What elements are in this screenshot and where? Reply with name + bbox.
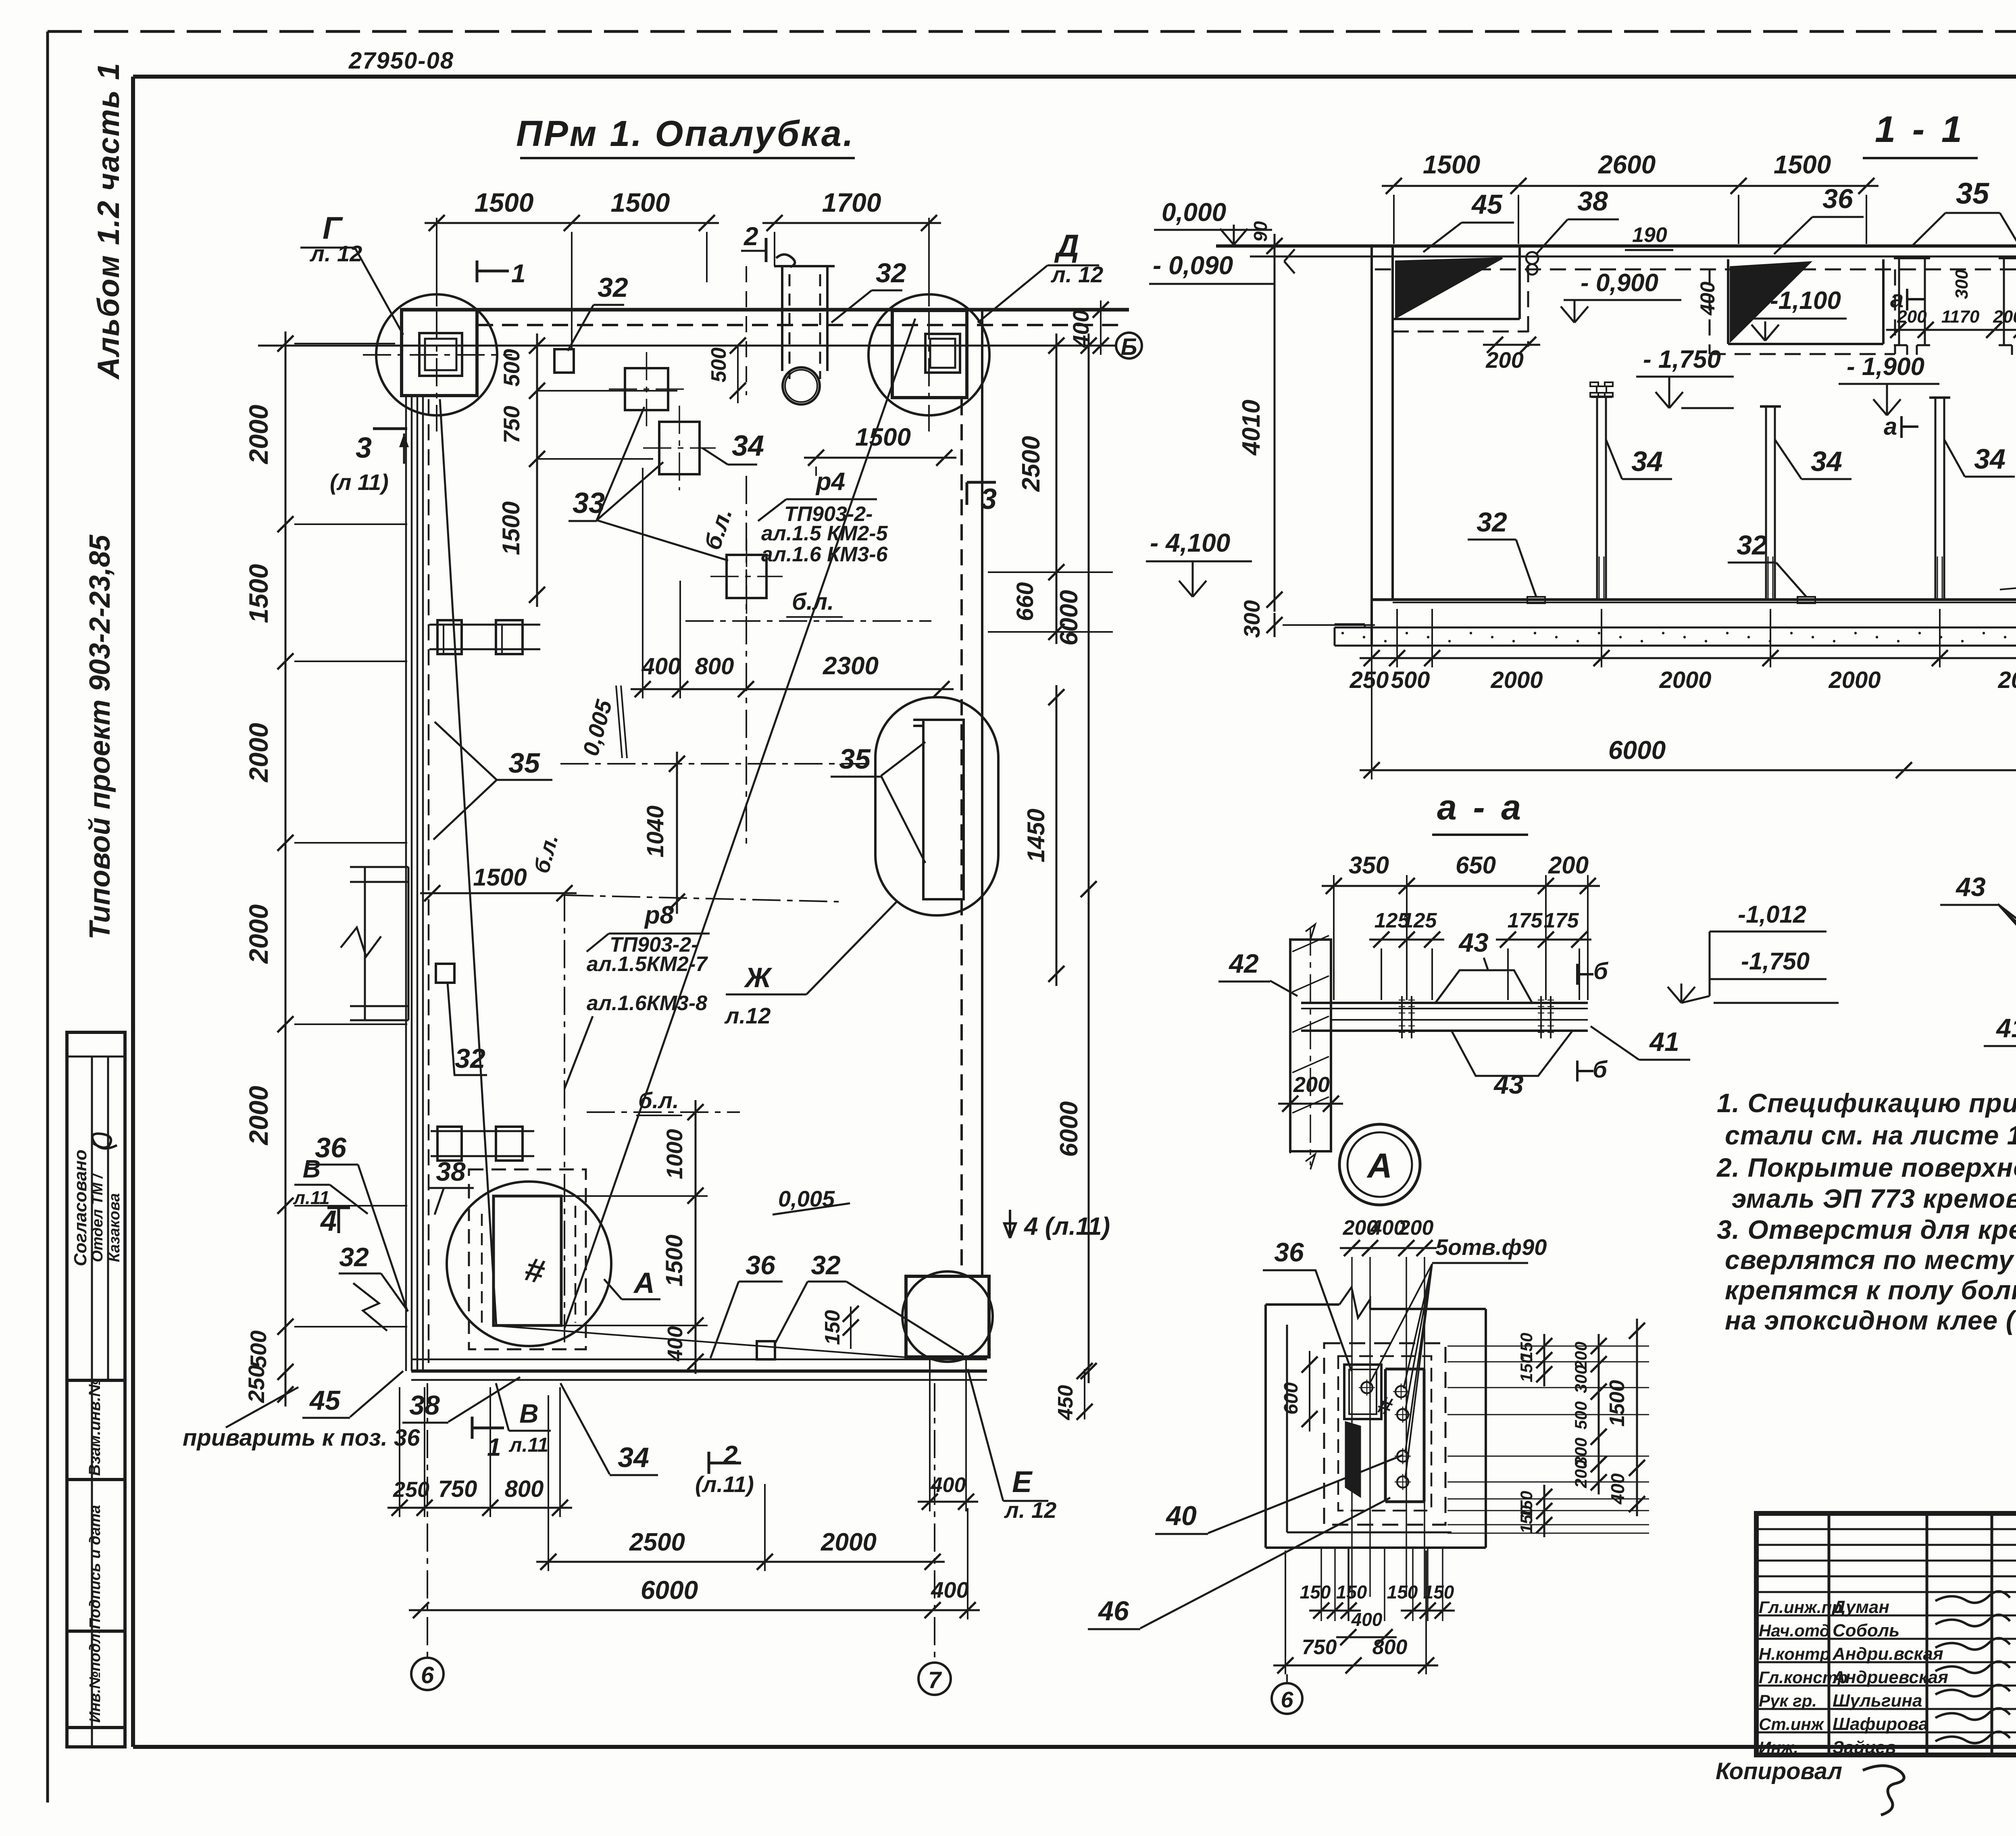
svg-text:Подпись и дата: Подпись и дата — [87, 1505, 104, 1629]
svg-text:2000: 2000 — [244, 723, 273, 783]
svg-text:1500: 1500 — [855, 423, 911, 451]
svg-text:45: 45 — [1471, 189, 1503, 220]
svg-text:б: б — [1593, 958, 1609, 984]
svg-text:а: а — [1884, 413, 1897, 440]
svg-text:38: 38 — [436, 1157, 466, 1186]
svg-text:6: 6 — [421, 1662, 434, 1688]
svg-text:1500: 1500 — [661, 1234, 687, 1286]
svg-text:- 0,090: - 0,090 — [1153, 251, 1233, 280]
svg-text:36: 36 — [1822, 183, 1854, 214]
svg-text:500: 500 — [499, 349, 524, 386]
svg-text:43: 43 — [1493, 1069, 1523, 1099]
svg-text:6000: 6000 — [641, 1576, 698, 1605]
svg-text:3: 3 — [356, 432, 372, 464]
svg-text:400: 400 — [1351, 1609, 1383, 1630]
svg-text:Согласовано: Согласовано — [71, 1150, 90, 1266]
svg-text:38: 38 — [1577, 186, 1608, 217]
svg-text:500: 500 — [1391, 667, 1430, 693]
svg-text:32: 32 — [1737, 530, 1767, 561]
svg-text:Б: Б — [1120, 334, 1137, 360]
svg-text:2500: 2500 — [1017, 436, 1045, 492]
svg-text:1 - 1: 1 - 1 — [1875, 109, 1965, 150]
svg-text:200: 200 — [1548, 852, 1589, 879]
svg-text:Андри.вская: Андри.вская — [1832, 1644, 1943, 1664]
svg-text:Инж.: Инж. — [1759, 1738, 1798, 1757]
svg-text:Нач.отд: Нач.отд — [1759, 1621, 1830, 1640]
svg-text:400: 400 — [1607, 1473, 1628, 1505]
svg-text:-1,750: -1,750 — [1741, 948, 1810, 975]
svg-text:Шульгина: Шульгина — [1833, 1691, 1922, 1711]
svg-text:400: 400 — [1068, 310, 1093, 348]
svg-text:0,000: 0,000 — [1162, 198, 1226, 227]
svg-text:200: 200 — [1993, 307, 2016, 327]
svg-text:150: 150 — [1336, 1582, 1367, 1603]
svg-text:2000: 2000 — [1490, 667, 1543, 693]
svg-text:приварить к поз. 36: приварить к поз. 36 — [183, 1425, 420, 1451]
svg-text:2000: 2000 — [821, 1528, 877, 1556]
svg-text:Ж: Ж — [744, 962, 773, 993]
svg-text:32: 32 — [339, 1242, 369, 1272]
svg-text:32: 32 — [455, 1043, 485, 1074]
svg-text:л.11: л.11 — [293, 1187, 329, 1208]
svg-text:4: 4 — [320, 1205, 337, 1237]
svg-text:- 4,100: - 4,100 — [1150, 528, 1230, 557]
svg-text:36: 36 — [1274, 1237, 1304, 1267]
svg-text:Отдел ТМ /: Отдел ТМ / — [89, 1173, 106, 1262]
svg-text:27950-08: 27950-08 — [348, 48, 454, 74]
svg-text:400: 400 — [1696, 281, 1719, 316]
svg-text:а - а: а - а — [1437, 787, 1524, 827]
svg-text:Инв.№подл.: Инв.№подл. — [87, 1630, 104, 1723]
svg-text:6000: 6000 — [1608, 736, 1666, 765]
svg-text:7: 7 — [928, 1667, 942, 1693]
svg-text:- 0,900: - 0,900 — [1581, 269, 1658, 297]
svg-text:750: 750 — [499, 406, 524, 443]
svg-text:1500: 1500 — [244, 564, 273, 623]
svg-text:2: 2 — [723, 1440, 738, 1469]
svg-text:200: 200 — [1398, 1216, 1434, 1240]
svg-text:Альбом 1.2 часть 1: Альбом 1.2 часть 1 — [92, 62, 126, 380]
svg-text:400: 400 — [931, 1577, 968, 1603]
svg-text:750: 750 — [1302, 1636, 1337, 1659]
svg-text:150: 150 — [1300, 1582, 1331, 1603]
svg-text:1: 1 — [511, 259, 526, 288]
svg-text:300: 300 — [1952, 269, 1972, 299]
svg-text:Рук гр.: Рук гр. — [1759, 1691, 1817, 1710]
svg-text:Андриевская: Андриевская — [1832, 1667, 1948, 1687]
svg-text:34: 34 — [1974, 443, 2006, 475]
svg-text:660: 660 — [1012, 582, 1038, 621]
svg-text:Гл.инж.пр: Гл.инж.пр — [1759, 1598, 1842, 1617]
svg-text:крепятся к полу болтами: крепятся к полу болтами 5М 12.×300 ГОСТ … — [1725, 1275, 2016, 1305]
svg-text:л. 12: л. 12 — [309, 241, 362, 266]
svg-text:800: 800 — [1372, 1636, 1408, 1659]
svg-text:190: 190 — [1632, 223, 1667, 247]
svg-text:ал.1.6 КМ3-6: ал.1.6 КМ3-6 — [761, 543, 888, 566]
svg-text:32: 32 — [811, 1250, 841, 1280]
svg-text:250: 250 — [244, 1365, 269, 1403]
svg-text:6: 6 — [1281, 1687, 1293, 1712]
svg-text:300: 300 — [1239, 600, 1264, 638]
svg-text:(л.11): (л.11) — [695, 1471, 754, 1497]
svg-text:46: 46 — [1098, 1596, 1129, 1626]
svg-text:2000: 2000 — [1997, 667, 2016, 693]
svg-text:ал.1.6КМ3-8: ал.1.6КМ3-8 — [587, 992, 707, 1015]
svg-text:34: 34 — [1811, 446, 1842, 477]
svg-text:450: 450 — [1054, 1385, 1077, 1421]
svg-text:2000: 2000 — [244, 904, 273, 964]
svg-text:43: 43 — [1955, 872, 1985, 902]
svg-text:л.11: л.11 — [509, 1434, 549, 1456]
svg-text:В: В — [303, 1155, 321, 1183]
svg-text:Думан: Думан — [1831, 1597, 1889, 1617]
svg-text:250: 250 — [1350, 667, 1389, 693]
svg-text:1500: 1500 — [611, 188, 670, 217]
svg-text:800: 800 — [505, 1476, 544, 1502]
svg-text:36: 36 — [746, 1250, 776, 1280]
svg-text:175: 175 — [1544, 909, 1579, 932]
svg-text:5отв.ф90: 5отв.ф90 — [1435, 1234, 1547, 1260]
svg-text:45: 45 — [309, 1385, 341, 1416]
svg-text:4 (л.11): 4 (л.11) — [1023, 1213, 1110, 1240]
svg-text:б.л.: б.л. — [638, 1088, 679, 1113]
svg-text:- 1,750: - 1,750 — [1643, 346, 1721, 373]
svg-text:л. 12: л. 12 — [1004, 1497, 1056, 1523]
svg-text:2. Покрытие поверхностей: 2. Покрытие поверхностей закладных детал… — [1716, 1152, 2016, 1182]
svg-text:1500: 1500 — [473, 864, 527, 891]
svg-text:2000: 2000 — [244, 404, 273, 465]
svg-text:1450: 1450 — [1023, 809, 1050, 862]
svg-text:41: 41 — [1995, 1013, 2016, 1043]
svg-text:40: 40 — [1165, 1500, 1197, 1531]
svg-text:а: а — [1890, 286, 1904, 313]
svg-text:6000: 6000 — [1055, 590, 1083, 646]
svg-text:3. Отверстия для крепления: 3. Отверстия для крепления рам под блоки… — [1717, 1215, 2016, 1244]
svg-text:Н.контр: Н.контр — [1759, 1644, 1830, 1663]
svg-text:35: 35 — [508, 747, 540, 779]
svg-text:1500: 1500 — [498, 501, 525, 555]
svg-text:ал.1.5 КМ2-5: ал.1.5 КМ2-5 — [761, 522, 888, 545]
svg-text:90: 90 — [1250, 221, 1271, 242]
svg-text:43: 43 — [1458, 927, 1488, 957]
svg-text:ПРм 1. Опалубка.: ПРм 1. Опалубка. — [516, 114, 855, 154]
svg-text:150: 150 — [1387, 1582, 1418, 1603]
svg-text:1: 1 — [487, 1434, 501, 1461]
svg-text:150: 150 — [1517, 1505, 1536, 1534]
svg-text:400: 400 — [641, 653, 681, 679]
svg-text:6000: 6000 — [1055, 1101, 1083, 1157]
svg-text:150: 150 — [1423, 1582, 1454, 1603]
svg-text:4010: 4010 — [1237, 400, 1265, 456]
svg-text:150: 150 — [1517, 1354, 1536, 1382]
svg-text:2000: 2000 — [1828, 667, 1881, 693]
svg-text:1. Спецификацию приямка ПР: 1. Спецификацию приямка ПРм1 и ведомость… — [1717, 1088, 2016, 1118]
svg-text:2000: 2000 — [244, 1086, 273, 1146]
svg-text:1500: 1500 — [1423, 150, 1480, 179]
svg-text:500: 500 — [707, 348, 731, 383]
svg-text:32: 32 — [598, 272, 628, 303]
svg-text:750: 750 — [438, 1476, 477, 1502]
svg-text:Е: Е — [1012, 1465, 1033, 1498]
svg-text:Взам.инв.№: Взам.инв.№ — [86, 1378, 104, 1476]
svg-text:1500: 1500 — [1606, 1380, 1629, 1427]
svg-text:Д: Д — [1054, 228, 1079, 263]
svg-text:эмаль ЭП 773 кремовая Г: эмаль ЭП 773 кремовая ГОСТ 23143 -83 VI … — [1732, 1184, 2016, 1213]
svg-text:А: А — [633, 1267, 655, 1299]
svg-text:ал.1.5КМ2-7: ал.1.5КМ2-7 — [587, 952, 708, 976]
svg-text:800: 800 — [695, 653, 734, 679]
svg-text:б.л.: б.л. — [792, 589, 834, 615]
svg-text:Г: Г — [323, 210, 343, 246]
svg-text:(л 11): (л 11) — [330, 469, 389, 495]
svg-text:Шафирова: Шафирова — [1833, 1714, 1929, 1734]
svg-text:на эпоксидном клее ( всег: на эпоксидном клее ( всего 17 отверстий … — [1725, 1305, 2016, 1335]
svg-text:175: 175 — [1508, 909, 1543, 932]
svg-text:б: б — [1593, 1057, 1608, 1083]
svg-text:2: 2 — [744, 222, 758, 251]
svg-text:41: 41 — [1649, 1027, 1679, 1057]
svg-text:1170: 1170 — [1941, 307, 1980, 327]
svg-text:Соболь: Соболь — [1833, 1621, 1899, 1640]
svg-text:1000: 1000 — [662, 1129, 687, 1180]
svg-text:200: 200 — [1293, 1073, 1330, 1097]
svg-text:32: 32 — [876, 258, 906, 288]
svg-text:1500: 1500 — [475, 188, 534, 217]
svg-text:В: В — [519, 1398, 539, 1428]
svg-text:- 1,900: - 1,900 — [1847, 353, 1924, 381]
svg-text:-1,012: -1,012 — [1738, 901, 1806, 928]
svg-text:400: 400 — [931, 1473, 966, 1497]
svg-text:2000: 2000 — [1659, 667, 1711, 693]
svg-text:2600: 2600 — [1598, 150, 1656, 179]
svg-text:л. 12: л. 12 — [1050, 262, 1103, 287]
svg-text:500: 500 — [1571, 1401, 1590, 1430]
svg-text:650: 650 — [1456, 852, 1496, 879]
svg-text:600: 600 — [1281, 1382, 1302, 1415]
svg-text:1040: 1040 — [642, 805, 669, 857]
svg-text:2500: 2500 — [629, 1528, 685, 1556]
svg-text:А: А — [1366, 1146, 1392, 1185]
svg-text:200: 200 — [1571, 1460, 1590, 1488]
svg-text:Типовой проект 903-2-23,85: Типовой проект 903-2-23,85 — [84, 534, 116, 940]
svg-text:Ст.инж: Ст.инж — [1759, 1715, 1824, 1734]
svg-text:1700: 1700 — [822, 188, 881, 217]
svg-text:35: 35 — [1956, 177, 1990, 210]
svg-text:2300: 2300 — [823, 652, 879, 680]
svg-text:300: 300 — [1571, 1365, 1590, 1393]
svg-text:р4: р4 — [815, 468, 845, 496]
svg-text:сверлятся по месту глубиной: сверлятся по месту глубиной 200мм. Рамы … — [1725, 1245, 2016, 1275]
svg-text:34: 34 — [1631, 446, 1663, 477]
svg-text:3: 3 — [981, 483, 997, 515]
svg-text:42: 42 — [1228, 948, 1259, 978]
svg-text:л.12: л.12 — [724, 1003, 771, 1028]
svg-text:34: 34 — [732, 430, 764, 462]
svg-text:-1,100: -1,100 — [1770, 287, 1841, 315]
svg-text:150: 150 — [821, 1310, 844, 1345]
svg-text:Зайцев: Зайцев — [1833, 1738, 1896, 1757]
svg-text:400: 400 — [664, 1326, 687, 1362]
svg-text:350: 350 — [1349, 852, 1389, 879]
svg-text:стали см. на листе 16.: стали см. на листе 16. — [1725, 1120, 2016, 1150]
svg-text:Казакова: Казакова — [106, 1193, 123, 1262]
svg-text:500: 500 — [246, 1330, 271, 1368]
svg-text:32: 32 — [1477, 507, 1507, 538]
svg-text:1500: 1500 — [1774, 150, 1831, 179]
svg-text:200: 200 — [1485, 347, 1523, 373]
svg-text:34: 34 — [618, 1442, 649, 1473]
svg-text:Копировал: Копировал — [1716, 1758, 1842, 1784]
svg-text:р8: р8 — [644, 901, 674, 929]
svg-text:35: 35 — [839, 743, 871, 775]
